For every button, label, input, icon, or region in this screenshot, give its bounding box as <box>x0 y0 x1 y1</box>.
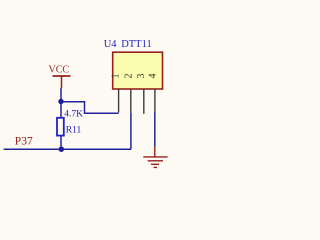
ground symbol <box>143 147 167 168</box>
power port VCC <box>49 65 71 89</box>
wire junction to pin 1 (step) <box>61 102 119 114</box>
svg-text:3: 3 <box>136 74 147 79</box>
svg-text:R11: R11 <box>66 126 82 136</box>
svg-text:P37: P37 <box>15 136 33 148</box>
junction dot at P37 node <box>59 147 64 152</box>
junction dot at VCC node <box>58 99 63 104</box>
pin 3 lead <box>143 89 145 114</box>
sheet background <box>0 0 203 207</box>
svg-text:1: 1 <box>111 74 122 79</box>
wire VCC stem to junction <box>60 88 62 103</box>
svg-text:2: 2 <box>123 74 134 79</box>
component U4 body (yellow box) <box>113 52 163 89</box>
svg-text:4.7K: 4.7K <box>64 110 83 120</box>
wire pin4 down to ground <box>154 113 156 147</box>
svg-text:VCC: VCC <box>49 65 70 76</box>
pin 2 lead <box>130 89 132 113</box>
svg-text:4: 4 <box>147 74 158 79</box>
wire P37 horizontal <box>4 148 131 150</box>
pin 4 lead <box>154 89 156 113</box>
resistor R11 body <box>57 118 64 136</box>
svg-text:U4: U4 <box>104 39 118 50</box>
svg-text:DTT11: DTT11 <box>121 39 152 50</box>
wire pin2 vertical down to P37 <box>130 113 132 149</box>
wire junction to resistor top <box>60 102 62 119</box>
pin 1 lead <box>118 89 120 113</box>
wire resistor bottom to P37 net <box>60 136 62 150</box>
